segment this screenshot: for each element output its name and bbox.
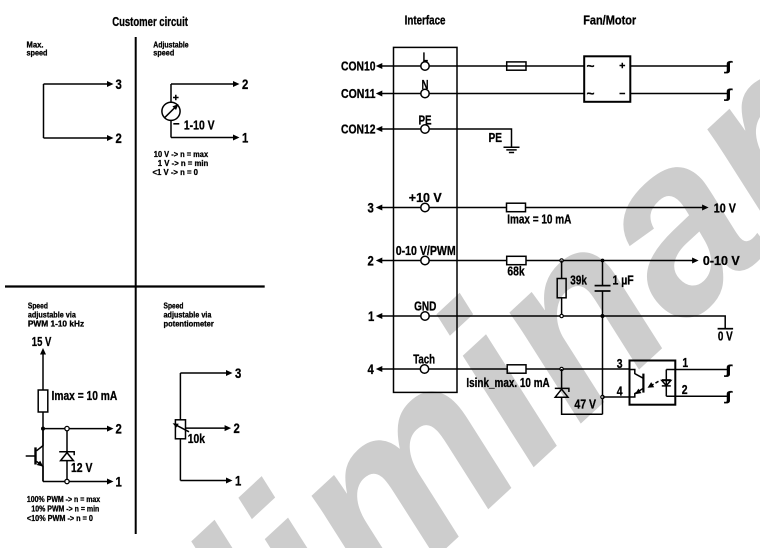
wire PE to ground bbox=[429, 129, 511, 147]
svg-text:2: 2 bbox=[116, 421, 122, 437]
opto LED D1 bbox=[662, 380, 671, 386]
svg-text:speed: speed bbox=[153, 48, 174, 58]
pin circle N bbox=[421, 89, 429, 97]
wire pot vertical bottom bbox=[179, 439, 181, 481]
arrow to terminal 2 bbox=[107, 135, 114, 141]
svg-text:∫: ∫ bbox=[724, 389, 733, 404]
wire pin2 left bbox=[382, 260, 421, 262]
interface box U1 bbox=[394, 47, 458, 392]
svg-text:1: 1 bbox=[116, 473, 122, 489]
svg-text:3: 3 bbox=[368, 199, 374, 215]
svg-text:Imax = 10 mA: Imax = 10 mA bbox=[507, 212, 572, 227]
wire resistor to node bbox=[42, 412, 44, 482]
svg-text:10k: 10k bbox=[188, 431, 206, 446]
node circle zener top bbox=[65, 426, 69, 430]
capacitor C1 1uF bbox=[595, 261, 611, 415]
divider horizontal bbox=[5, 285, 265, 287]
arrow left pin3 bbox=[376, 205, 383, 211]
wire 39k bottom bbox=[561, 298, 563, 316]
svg-text:CON12: CON12 bbox=[341, 121, 376, 136]
resistor R5 39k bbox=[557, 279, 566, 298]
wire pot terminal 3 bbox=[180, 372, 227, 374]
svg-text:GND: GND bbox=[414, 299, 436, 314]
voltage source adjust slash bbox=[165, 105, 178, 118]
wire CON11 left bbox=[382, 93, 421, 95]
wire max-speed vertical bbox=[43, 84, 45, 138]
svg-text:Interface: Interface bbox=[405, 13, 446, 28]
plus sign bbox=[173, 95, 179, 101]
motor M1 box bbox=[584, 56, 630, 102]
arrow to terminal 3 bbox=[107, 81, 114, 87]
svg-text:4: 4 bbox=[617, 383, 623, 398]
svg-text:Customer circuit: Customer circuit bbox=[112, 14, 188, 29]
svg-text:CON11: CON11 bbox=[341, 86, 376, 101]
wire 39k top bbox=[561, 261, 563, 279]
motor plus bbox=[620, 63, 626, 69]
svg-text:3: 3 bbox=[116, 76, 122, 92]
wire source bottom bbox=[170, 120, 172, 137]
resistor R pwm body bbox=[38, 390, 48, 412]
svg-text:10% PWM -> n = min: 10% PWM -> n = min bbox=[31, 504, 99, 514]
junction dot row2 cap bbox=[601, 259, 605, 263]
svg-text:3: 3 bbox=[617, 356, 623, 371]
pin circle PE bbox=[421, 125, 429, 133]
wire L to fuse bbox=[429, 65, 507, 67]
arrow left CON11 bbox=[376, 91, 383, 97]
svg-text:1-10 V: 1-10 V bbox=[184, 118, 215, 133]
svg-text:39k: 39k bbox=[570, 273, 587, 288]
motor minus bbox=[620, 93, 626, 95]
wire 15V to resistor bbox=[42, 353, 44, 390]
svg-text:4: 4 bbox=[368, 361, 374, 377]
arrow to terminal 2 adj bbox=[233, 81, 240, 87]
pin circle +10V bbox=[421, 203, 429, 211]
svg-text:Imax = 10 mA: Imax = 10 mA bbox=[52, 388, 118, 403]
wire GND to 0V bbox=[429, 316, 725, 328]
svg-text:Fan/Motor: Fan/Motor bbox=[583, 13, 636, 28]
optocoupler U2 box bbox=[630, 361, 676, 405]
resistor R6 Isink bbox=[507, 365, 526, 373]
wire Tach to resistor bbox=[429, 368, 508, 370]
ground PE symbol bbox=[504, 147, 520, 152]
svg-text:2: 2 bbox=[234, 420, 240, 436]
svg-text:Tach: Tach bbox=[413, 352, 435, 367]
transistor emitter arrow bbox=[37, 461, 45, 469]
arrow pot terminal 3 bbox=[226, 370, 233, 376]
divider vertical bbox=[135, 37, 137, 534]
zener diode 47V bbox=[555, 369, 603, 414]
wire max-speed terminal 2 bbox=[44, 137, 108, 139]
junction node row1 39k bbox=[560, 314, 563, 317]
wire 0-10V to resistor bbox=[429, 260, 507, 262]
svg-text:100% PWM -> n = max: 100% PWM -> n = max bbox=[27, 494, 101, 504]
wire source top bbox=[170, 84, 172, 102]
svg-text:N: N bbox=[422, 77, 429, 92]
arrow pwm terminal 2 bbox=[107, 426, 114, 432]
wire adj-speed terminal 1 bbox=[171, 137, 234, 139]
wire +10V to resistor bbox=[429, 207, 506, 209]
wire CON10 left bbox=[382, 65, 421, 67]
svg-text:PE: PE bbox=[489, 130, 503, 145]
wire Isink to opto bbox=[526, 368, 630, 370]
svg-text:1: 1 bbox=[368, 308, 374, 324]
voltage source V1 circle bbox=[162, 102, 180, 120]
svg-text:L: L bbox=[423, 49, 428, 64]
svg-text:<10% PWM -> n = 0: <10% PWM -> n = 0 bbox=[27, 513, 93, 523]
wire pin1 left bbox=[382, 315, 421, 317]
slash arrowhead bbox=[172, 102, 180, 110]
opto emitter arrow bbox=[633, 389, 641, 397]
arrow left pin2 bbox=[376, 258, 383, 264]
wire CON12 left bbox=[382, 128, 421, 130]
svg-text:2: 2 bbox=[116, 130, 122, 146]
svg-text:1: 1 bbox=[242, 129, 248, 145]
wire adj-speed terminal 2 bbox=[171, 83, 234, 85]
svg-text:PWM 1-10 kHz: PWM 1-10 kHz bbox=[28, 319, 84, 329]
wire N to motor bbox=[429, 93, 584, 95]
arrow to terminal 1 adj bbox=[233, 135, 240, 141]
wire opto pin2 out bbox=[675, 395, 727, 397]
arrow up 15V bbox=[40, 348, 46, 355]
resistor R3 Imax bbox=[507, 203, 526, 212]
fuse F1 bbox=[507, 62, 526, 70]
wire pwm terminal 1 bbox=[43, 481, 108, 483]
pot wiper diagonal bbox=[174, 424, 189, 432]
wire motor minus out bbox=[630, 93, 727, 95]
pin circle Tach bbox=[420, 365, 428, 373]
svg-text:15 V: 15 V bbox=[32, 334, 52, 349]
opto LED rail bbox=[666, 370, 675, 397]
junction dot row1 cap bbox=[601, 314, 605, 318]
arrow pot terminal 1 bbox=[226, 478, 233, 484]
arrow right 10V bbox=[702, 205, 709, 211]
svg-text:0-10 V: 0-10 V bbox=[703, 253, 740, 268]
wire pwm terminal 2 bbox=[43, 428, 108, 430]
ground 0V bar bbox=[718, 328, 734, 330]
pin circle GND bbox=[421, 312, 429, 320]
wire opto pin1 out bbox=[675, 369, 727, 371]
svg-text:2: 2 bbox=[682, 382, 688, 397]
wire resistor to 10V bbox=[526, 207, 703, 209]
arrow pot terminal 2 bbox=[225, 425, 232, 431]
svg-text:PE: PE bbox=[419, 112, 432, 127]
svg-text:speed: speed bbox=[27, 48, 48, 58]
arrow left CON12 bbox=[376, 126, 383, 132]
potentiometer R2 body bbox=[175, 420, 185, 439]
svg-text:potentiometer: potentiometer bbox=[164, 319, 215, 329]
arrow right 0-10V bbox=[692, 258, 699, 264]
svg-text:~: ~ bbox=[587, 86, 595, 101]
svg-text:12 V: 12 V bbox=[71, 460, 93, 475]
pin circle L bbox=[421, 62, 429, 70]
wire pin3 left bbox=[382, 207, 421, 209]
svg-text:2: 2 bbox=[242, 76, 248, 92]
junction node row4 zener bbox=[560, 367, 563, 370]
svg-text:0-10 V/PWM: 0-10 V/PWM bbox=[396, 243, 456, 258]
svg-text:1: 1 bbox=[682, 355, 688, 370]
wire 68k to 0-10V arrow bbox=[526, 260, 693, 262]
minus sign bbox=[173, 123, 179, 125]
pin circle 0-10V bbox=[421, 256, 429, 264]
junction dot collector node bbox=[41, 427, 45, 431]
svg-text:Isink_max. 10 mA: Isink_max. 10 mA bbox=[466, 375, 550, 390]
wire pot vertical top bbox=[179, 373, 181, 420]
arrow pwm terminal 1 bbox=[107, 479, 114, 485]
opto light arrowhead bbox=[646, 382, 654, 390]
svg-text:CON10: CON10 bbox=[341, 58, 376, 73]
svg-text:0 V: 0 V bbox=[718, 328, 733, 343]
wire pot wiper to 2 bbox=[186, 427, 226, 429]
svg-text:<1 V -> n = 0: <1 V -> n = 0 bbox=[153, 167, 199, 177]
svg-text:1: 1 bbox=[235, 472, 241, 488]
arrow left CON10 bbox=[376, 63, 383, 69]
opto light arrow bbox=[650, 381, 659, 386]
junction node row2 39k bbox=[560, 259, 563, 262]
wire fuse to motor bbox=[526, 65, 584, 67]
wire pot terminal 1 bbox=[180, 480, 227, 482]
svg-text:3: 3 bbox=[235, 365, 241, 381]
pot wiper arrowhead bbox=[173, 423, 179, 427]
svg-text:2: 2 bbox=[368, 252, 374, 268]
opto phototransistor bbox=[630, 370, 644, 398]
svg-text:+10 V: +10 V bbox=[409, 190, 442, 205]
zener diode 12V bbox=[59, 431, 74, 480]
svg-text:∫: ∫ bbox=[724, 362, 733, 377]
wire pin4 left bbox=[382, 368, 421, 370]
junction node pin4 opto bbox=[601, 395, 604, 398]
resistor R4 68k bbox=[507, 256, 526, 264]
svg-text:47 V: 47 V bbox=[574, 397, 596, 412]
wire max-speed terminal 3 bbox=[44, 83, 108, 85]
node circle zener bottom bbox=[65, 479, 69, 483]
arrow left pin4 bbox=[376, 366, 383, 372]
arrow left pin1 bbox=[376, 313, 383, 319]
svg-text:preliminary: preliminary bbox=[0, 0, 760, 548]
transistor Q1 bbox=[26, 429, 43, 482]
wire to opto pin4 bbox=[603, 396, 630, 398]
wire motor plus out bbox=[630, 65, 727, 67]
svg-text:10 V: 10 V bbox=[714, 200, 736, 215]
svg-text:~: ~ bbox=[587, 59, 595, 74]
svg-text:68k: 68k bbox=[507, 264, 525, 279]
svg-text:1 µF: 1 µF bbox=[613, 273, 634, 288]
